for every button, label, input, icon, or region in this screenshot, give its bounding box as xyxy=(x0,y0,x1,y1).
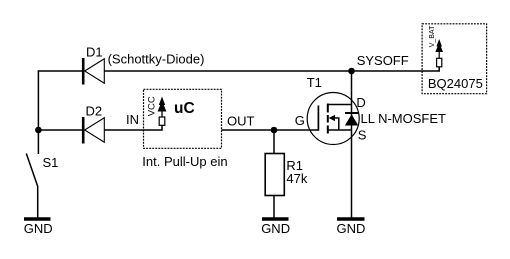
resistor R1 body xyxy=(265,154,284,196)
wire: node to R1 top xyxy=(273,130,275,154)
svg-text:GND: GND xyxy=(24,221,53,236)
uC internal pull-up resistor xyxy=(159,117,165,125)
BQ24075 dashed box xyxy=(422,24,487,94)
svg-text:LL N-MOSFET: LL N-MOSFET xyxy=(361,111,447,126)
svg-text:G: G xyxy=(295,113,305,128)
svg-text:D: D xyxy=(356,95,365,110)
svg-text:(Schottky-Diode): (Schottky-Diode) xyxy=(108,52,205,67)
wire: top wire D1 to BQ24075 pull-up xyxy=(104,67,439,71)
wire: R1 bottom to GND xyxy=(273,196,275,219)
diode D1 cathode bar xyxy=(82,58,85,85)
svg-text:GND: GND xyxy=(337,221,366,236)
svg-text:T1: T1 xyxy=(307,75,322,90)
svg-text:Int. Pull-Up ein: Int. Pull-Up ein xyxy=(142,154,227,169)
wire: uC OUT to MOSFET gate xyxy=(222,129,319,131)
body diode triangle xyxy=(345,114,358,125)
wire: switch S1 blade xyxy=(26,154,37,187)
svg-text:S1: S1 xyxy=(43,155,59,170)
transistor T1 gate bar xyxy=(317,106,319,131)
svg-text:uC: uC xyxy=(174,100,195,117)
diode D1 triangle xyxy=(85,59,105,83)
ground (S1) xyxy=(24,217,51,221)
BQ24075 internal pull-up resistor xyxy=(437,58,442,67)
svg-text:D1: D1 xyxy=(86,45,103,60)
node B: junction OUT / R1 / gate xyxy=(271,127,278,134)
svg-text:S: S xyxy=(358,128,367,143)
uC VCC arrow xyxy=(161,107,163,117)
diode D2 triangle xyxy=(85,118,105,142)
svg-text:SYSOFF: SYSOFF xyxy=(357,53,409,68)
transistor T1 channel segments xyxy=(327,104,329,113)
svg-text:OUT: OUT xyxy=(227,114,255,129)
uC dashed box xyxy=(144,89,222,148)
svg-text:V_BAT: V_BAT xyxy=(429,25,436,47)
wire: switch bottom lead to GND xyxy=(37,186,39,218)
transistor T1 substrate arrow xyxy=(329,115,335,121)
ground (R1) xyxy=(262,217,289,221)
wire: node to D2 anode xyxy=(38,129,83,131)
svg-text:IN: IN xyxy=(126,112,139,127)
svg-text:VCC: VCC xyxy=(146,96,157,116)
wire: switch top lead xyxy=(37,130,39,154)
node A: junction left rail / D2 / S1 xyxy=(35,127,42,134)
wire: left rail from top corner down to node, and top wire to D1 xyxy=(38,71,83,130)
svg-text:47k: 47k xyxy=(286,171,307,186)
svg-text:GND: GND xyxy=(261,221,290,236)
diode D2 cathode bar xyxy=(82,117,85,144)
transistor T1 drain stub xyxy=(328,104,352,106)
transistor T1 source stub xyxy=(328,129,352,131)
wire: drain-source vertical line SYSOFF junction to GND xyxy=(351,71,353,218)
wire: D2 cathode to uC pull-up xyxy=(104,125,162,130)
ground (T1 source) xyxy=(337,217,365,221)
BQ24075 V_BAT arrow xyxy=(438,48,440,58)
transistor T1 circle xyxy=(307,93,359,145)
node C: junction drain / SYSOFF xyxy=(348,68,355,75)
body diode cathode bar xyxy=(345,112,359,114)
svg-text:D2: D2 xyxy=(86,104,103,119)
svg-text:BQ24075: BQ24075 xyxy=(428,76,483,91)
